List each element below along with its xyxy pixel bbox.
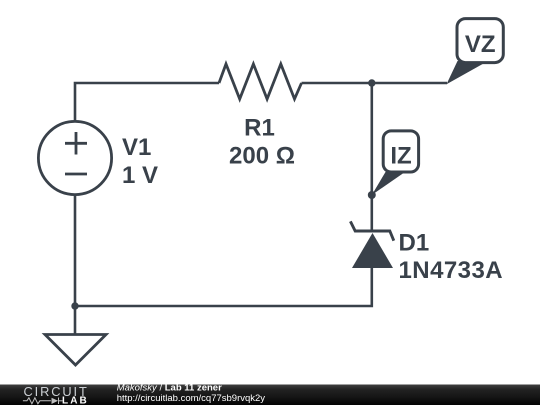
wire: V1 bottom lead bbox=[74, 195, 77, 306]
zener diode D1 bbox=[350, 221, 393, 268]
svg-text:200 Ω: 200 Ω bbox=[229, 143, 295, 170]
node junction dot bottom bbox=[71, 302, 78, 309]
wire top-left: V1 top lead to resistor bbox=[75, 83, 219, 122]
svg-text:VZ: VZ bbox=[465, 31, 496, 58]
svg-text:LAB: LAB bbox=[62, 396, 89, 405]
svg-text:1 V: 1 V bbox=[122, 162, 158, 189]
ground bbox=[45, 335, 106, 366]
wire: zener bottom to bottom rail bbox=[75, 268, 372, 306]
logo zigzag wire and diode bbox=[23, 398, 59, 405]
footer bar bbox=[0, 385, 540, 405]
svg-text:V1: V1 bbox=[122, 134, 151, 161]
wire: resistor to VZ flag anchor bbox=[302, 82, 448, 85]
voltage source V1 bbox=[38, 121, 111, 194]
svg-text:1N4733A: 1N4733A bbox=[399, 257, 504, 284]
wire: ground stem bbox=[74, 306, 77, 335]
node junction dot at top bbox=[368, 79, 375, 86]
svg-text:IZ: IZ bbox=[390, 142, 411, 169]
svg-text:http://circuitlab.com/cq77sb9r: http://circuitlab.com/cq77sb9rvqk2y bbox=[117, 393, 266, 404]
resistor R1 bbox=[219, 64, 302, 99]
svg-text:R1: R1 bbox=[244, 115, 275, 142]
svg-text:D1: D1 bbox=[399, 230, 430, 257]
node IZ flag bbox=[368, 131, 419, 199]
node VZ flag bbox=[447, 19, 504, 85]
wire: junction down to zener bbox=[370, 83, 373, 231]
